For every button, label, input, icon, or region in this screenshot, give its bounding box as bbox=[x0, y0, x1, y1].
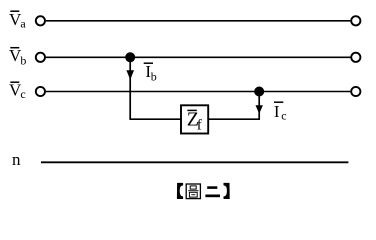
svg-text:b: b bbox=[20, 54, 26, 68]
svg-text:c: c bbox=[281, 108, 286, 122]
svg-text:b: b bbox=[151, 70, 157, 84]
svg-text:I: I bbox=[274, 102, 280, 121]
svg-text:a: a bbox=[20, 17, 26, 31]
svg-text:c: c bbox=[20, 87, 25, 101]
svg-text:n: n bbox=[12, 150, 21, 169]
svg-text:f: f bbox=[197, 118, 202, 134]
